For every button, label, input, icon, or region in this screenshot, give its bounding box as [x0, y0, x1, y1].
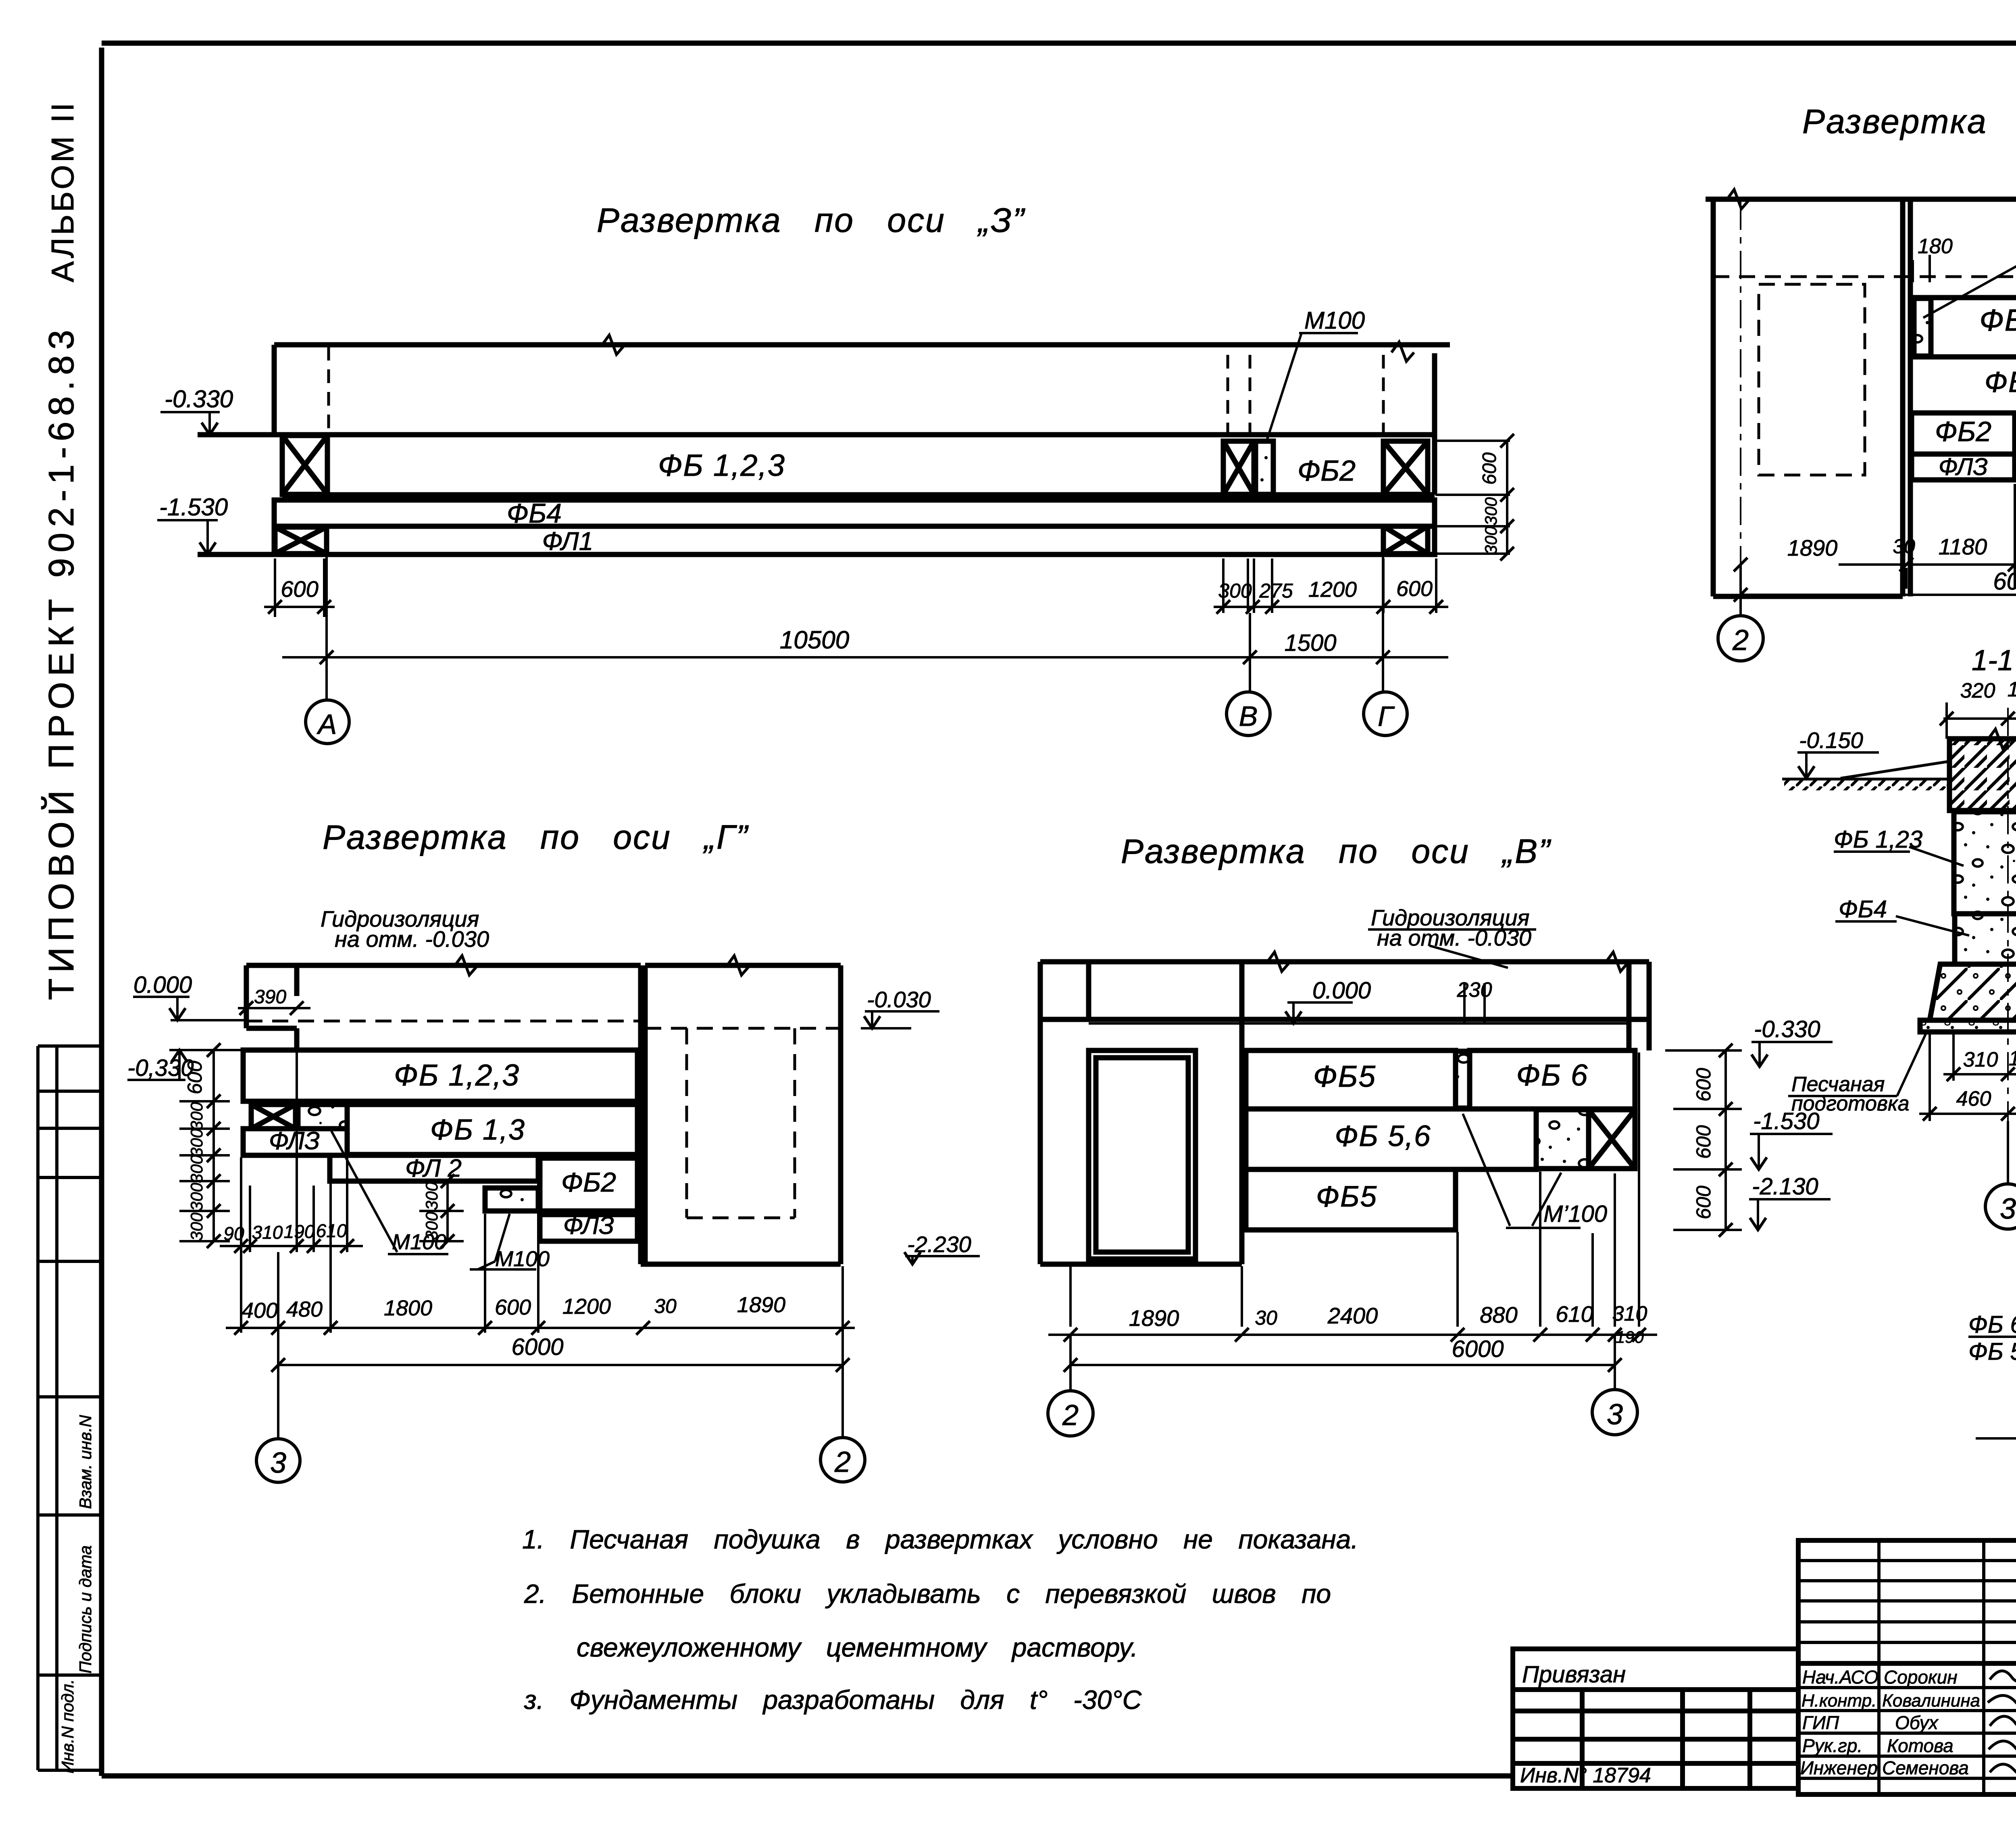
svg-text:Развертка по оси „В”: Развертка по оси „В”	[1121, 832, 1552, 870]
svg-text:1500: 1500	[1284, 630, 1336, 656]
svg-text:ФБ4: ФБ4	[507, 498, 562, 529]
svg-text:600: 600	[1396, 577, 1433, 601]
svg-text:3: 3	[270, 1447, 286, 1479]
svg-text:600: 600	[1692, 1125, 1715, 1159]
svg-text:1. Песчаная подушка в развер: 1. Песчаная подушка в развертках условно…	[522, 1524, 1358, 1554]
svg-text:ФБ5: ФБ5	[1313, 1059, 1376, 1093]
svg-text:Развертка по оси „А”: Развертка по оси „А”	[1802, 102, 2016, 140]
svg-text:1-1: 1-1	[1972, 644, 2014, 677]
svg-text:600: 600	[495, 1295, 531, 1319]
svg-text:свежеуложенному цементному р: свежеуложенному цементному раствору.	[577, 1632, 1138, 1662]
svg-text:600: 600	[1692, 1068, 1715, 1102]
svg-text:300: 300	[1481, 497, 1500, 525]
svg-text:-0.330: -0.330	[1754, 1016, 1820, 1042]
svg-text:ФБ 1: ФБ 1	[1979, 303, 2016, 338]
svg-text:з. Фундаменты разработаны дл: з. Фундаменты разработаны для t° -30°С	[524, 1685, 1142, 1715]
svg-text:600: 600	[1692, 1186, 1715, 1219]
svg-text:320: 320	[1960, 679, 1995, 702]
svg-text:Инв.N подл.: Инв.N подл.	[58, 1679, 77, 1773]
svg-text:310: 310	[1612, 1302, 1647, 1325]
svg-text:ФБ 6: ФБ 6	[1516, 1058, 1589, 1092]
svg-text:ФБ 5,6: ФБ 5,6	[1968, 1338, 2016, 1365]
svg-text:300: 300	[187, 1154, 206, 1183]
svg-text:400: 400	[242, 1298, 278, 1323]
svg-text:6000: 6000	[1993, 568, 2016, 595]
svg-text:190: 190	[2009, 1047, 2016, 1070]
svg-text:1180: 1180	[1939, 534, 1987, 559]
svg-text:190: 190	[284, 1221, 315, 1242]
svg-text:1200: 1200	[562, 1294, 611, 1319]
svg-text:2: 2	[1062, 1399, 1079, 1432]
svg-text:6000: 6000	[1452, 1336, 1504, 1362]
svg-text:3: 3	[2000, 1193, 2016, 1225]
svg-text:6000: 6000	[511, 1334, 563, 1360]
svg-text:-0.150: -0.150	[1799, 727, 1863, 753]
svg-text:600: 600	[1479, 452, 1500, 485]
svg-text:ФБ2: ФБ2	[1297, 455, 1356, 487]
svg-text:Взам. инв.N: Взам. инв.N	[76, 1415, 95, 1509]
svg-text:460: 460	[1956, 1087, 1991, 1111]
svg-text:ФБ 5,6: ФБ 5,6	[1335, 1120, 1431, 1152]
svg-text:-0.030: -0.030	[867, 987, 931, 1012]
svg-text:Подпись и дата: Подпись и дата	[76, 1545, 95, 1673]
svg-text:2: 2	[834, 1446, 851, 1478]
svg-text:300: 300	[187, 1102, 206, 1130]
svg-text:300: 300	[422, 1211, 441, 1240]
svg-text:0.000: 0.000	[133, 972, 192, 998]
svg-text:ФЛ1: ФЛ1	[542, 527, 594, 556]
svg-text:300: 300	[422, 1182, 441, 1210]
svg-text:ФЛЗ: ФЛЗ	[1939, 453, 1988, 480]
svg-text:Инв.N° 18794: Инв.N° 18794	[1520, 1764, 1651, 1787]
svg-text:-2.230: -2.230	[907, 1232, 971, 1257]
svg-text:600: 600	[281, 576, 318, 602]
svg-text:1890: 1890	[1129, 1305, 1179, 1331]
svg-text:В: В	[1239, 700, 1258, 732]
svg-text:ТИПОВОЙ ПРОЕКТ 902-1-68.83: ТИПОВОЙ ПРОЕКТ 902-1-68.83	[41, 324, 81, 1000]
svg-text:Развертка по оси „Г”: Развертка по оси „Г”	[323, 818, 749, 856]
svg-text:600: 600	[183, 1061, 206, 1094]
svg-text:310: 310	[252, 1222, 283, 1243]
svg-text:на отм. -0.030: на отм. -0.030	[335, 926, 489, 952]
svg-text:ФБ 1,23: ФБ 1,23	[1834, 826, 1922, 853]
svg-text:М100: М100	[1304, 307, 1365, 334]
svg-text:Нач.АСО: Нач.АСО	[1802, 1667, 1879, 1688]
svg-text:2400: 2400	[1327, 1303, 1378, 1328]
svg-text:300: 300	[187, 1128, 206, 1157]
svg-text:ФБ5: ФБ5	[1316, 1180, 1377, 1213]
svg-text:Г: Г	[1378, 700, 1395, 732]
svg-text:610: 610	[1556, 1301, 1593, 1327]
svg-text:-2.130: -2.130	[1752, 1173, 1818, 1200]
svg-text:Сорокин: Сорокин	[1884, 1667, 1958, 1688]
svg-text:3: 3	[1607, 1398, 1623, 1431]
svg-text:1890: 1890	[737, 1293, 785, 1317]
svg-text:М100: М100	[495, 1247, 550, 1271]
svg-text:ФБ4: ФБ4	[1839, 896, 1887, 923]
svg-text:АЛЬБОМ II: АЛЬБОМ II	[45, 100, 80, 282]
svg-text:ФБ2: ФБ2	[1935, 416, 1991, 447]
svg-text:90: 90	[223, 1223, 244, 1244]
svg-text:Семенова: Семенова	[1882, 1757, 1969, 1778]
svg-text:275: 275	[1259, 579, 1293, 602]
svg-text:180: 180	[1918, 235, 1953, 258]
svg-text:на отм. -0.030: на отм. -0.030	[1377, 925, 1531, 950]
svg-text:310: 310	[1963, 1048, 1998, 1071]
svg-text:480: 480	[286, 1297, 323, 1321]
svg-text:ФЛЗ: ФЛЗ	[563, 1212, 614, 1240]
svg-text:-1.530: -1.530	[159, 494, 228, 521]
svg-text:2. Бетонные блоки укладывать: 2. Бетонные блоки укладывать с перевязко…	[524, 1579, 1331, 1609]
svg-text:190: 190	[1616, 1327, 1644, 1346]
svg-text:300: 300	[187, 1182, 206, 1211]
svg-text:300: 300	[1481, 526, 1500, 554]
svg-text:300: 300	[1218, 579, 1252, 602]
svg-text:ФБ 1,3: ФБ 1,3	[1985, 366, 2016, 398]
svg-text:880: 880	[1480, 1302, 1517, 1327]
svg-text:подготовка: подготовка	[1791, 1092, 1910, 1115]
svg-text:Развертка по оси „З”: Развертка по оси „З”	[597, 201, 1026, 239]
svg-text:0.000: 0.000	[1312, 977, 1371, 1004]
svg-text:30: 30	[1255, 1307, 1277, 1329]
svg-text:М’100: М’100	[1543, 1201, 1607, 1227]
svg-text:300: 300	[187, 1212, 206, 1241]
svg-text:Рук.гр.: Рук.гр.	[1802, 1735, 1862, 1756]
svg-text:610: 610	[316, 1220, 347, 1241]
svg-text:Котова: Котова	[1887, 1735, 1954, 1756]
svg-text:ФБ 1,3: ФБ 1,3	[430, 1114, 525, 1146]
svg-text:ФЛЗ: ФЛЗ	[269, 1127, 320, 1155]
svg-text:30: 30	[654, 1295, 677, 1317]
svg-text:1800: 1800	[384, 1296, 432, 1320]
svg-text:ФБ2: ФБ2	[561, 1167, 616, 1198]
svg-text:ФБ 1,2,3: ФБ 1,2,3	[658, 448, 785, 483]
svg-text:Привязан: Привязан	[1522, 1661, 1626, 1688]
svg-text:230: 230	[1457, 978, 1492, 1002]
svg-text:190: 190	[2008, 678, 2016, 701]
svg-text:ГИП: ГИП	[1802, 1712, 1839, 1733]
svg-text:ФЛ 2: ФЛ 2	[405, 1154, 462, 1182]
svg-text:1200: 1200	[1308, 577, 1357, 602]
svg-text:2: 2	[1732, 624, 1749, 656]
svg-text:ФБ 6: ФБ 6	[1968, 1311, 2016, 1338]
svg-text:Н.контр.: Н.контр.	[1801, 1691, 1876, 1711]
svg-text:Ковалинина: Ковалинина	[1882, 1691, 1980, 1711]
svg-text:10500: 10500	[780, 626, 849, 654]
svg-text:Обух: Обух	[1895, 1712, 1939, 1733]
svg-text:А: А	[317, 709, 337, 740]
svg-text:ФБ 1,2,3: ФБ 1,2,3	[394, 1058, 520, 1092]
svg-text:390: 390	[254, 986, 286, 1008]
svg-text:Инженер: Инженер	[1800, 1757, 1878, 1778]
svg-text:30: 30	[1893, 535, 1915, 558]
svg-text:1890: 1890	[1787, 535, 1838, 561]
svg-text:-0.330: -0.330	[165, 386, 233, 413]
